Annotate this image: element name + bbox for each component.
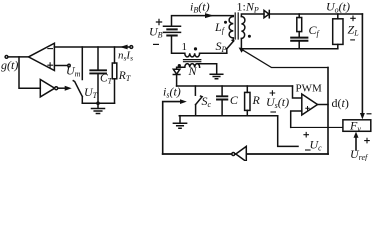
text minus comparator <box>47 48 53 50</box>
svg-text:Uo(t): Uo(t) <box>326 0 350 15</box>
capacitor Cf plates <box>291 38 307 41</box>
ground G2 <box>210 74 223 79</box>
wire Fv output to PWM <box>291 126 343 128</box>
text minus ZL <box>350 39 355 41</box>
svg-text:Us(t): Us(t) <box>266 95 289 110</box>
text minus Us <box>270 111 276 113</box>
arrow iB on top wire <box>205 13 214 18</box>
wire secondary left to diode D2 <box>177 67 185 69</box>
svg-text:d(t): d(t) <box>332 96 349 110</box>
text plus comparator <box>47 62 53 68</box>
text plus battery <box>156 19 162 25</box>
dot sense primary <box>194 47 197 50</box>
sense transformer secondary winding (N) <box>185 64 200 68</box>
capacitor CT plates <box>90 70 106 73</box>
wire is arrow from bottom loop <box>163 102 181 154</box>
wire Fv error into PWM lower input <box>291 111 302 127</box>
capacitor Cf esr box <box>297 18 302 32</box>
svg-text:iB(t): iB(t) <box>190 0 210 15</box>
svg-text:Lf: Lf <box>214 20 226 35</box>
op-amp U1 (left-pointing comparator) <box>29 43 55 70</box>
load ZL box <box>333 19 343 45</box>
capacitor C stub bottom <box>221 100 223 116</box>
wire bottom feedback <box>163 153 328 155</box>
transformer core <box>235 13 238 39</box>
switch SP bottom stub <box>226 49 228 53</box>
diode D1 <box>264 10 269 17</box>
svg-text:1: 1 <box>182 41 188 53</box>
sense transformer core <box>184 60 201 62</box>
resistor RT box <box>112 63 117 79</box>
capacitor C plates <box>217 96 227 99</box>
wire d(t) to SP arrow <box>242 49 329 67</box>
rail B <box>179 115 277 117</box>
capacitor Cf stub <box>298 14 300 18</box>
wire right edge Uo down <box>361 14 363 114</box>
wire junction g to inverter <box>19 57 40 88</box>
capacitor Cf wire <box>298 32 300 38</box>
op-amp PWM comparator <box>302 94 318 115</box>
wire diode to output rail <box>269 13 362 15</box>
svg-text:Uc: Uc <box>310 138 323 153</box>
wire inverter output arrow <box>58 87 65 89</box>
box Fv <box>343 120 371 132</box>
text plus Uref <box>364 138 370 144</box>
junction dot bottom node <box>96 101 100 105</box>
battery UB bottom wire <box>172 36 185 54</box>
resistor R stub top <box>246 86 248 92</box>
resistor RT stub bottom <box>114 79 116 103</box>
wire minus input stub to top rail <box>54 46 131 48</box>
switch Sc bottom stub <box>195 105 197 116</box>
transformer primary Lf winding <box>229 17 233 39</box>
wire bottom node <box>82 102 114 104</box>
switch UT top stub <box>81 47 83 80</box>
text plus pwm <box>305 106 309 110</box>
resistor R box <box>245 92 250 110</box>
diode D2 <box>173 69 180 74</box>
svg-text:UT: UT <box>84 85 98 100</box>
svg-text:N: N <box>188 64 198 78</box>
wire secondary bottom rail <box>241 39 337 49</box>
wire D2 to rail A <box>176 75 178 87</box>
text minus battery <box>153 43 159 45</box>
switch SP blade <box>227 40 234 48</box>
wire secondary top to diode <box>241 14 264 17</box>
buffer U3 on bottom wire (left pointing) <box>236 146 247 161</box>
text minus Fv input <box>367 113 372 115</box>
wire PWM output d(t) <box>318 104 329 106</box>
rail A is(t) <box>177 85 293 87</box>
capacitor C stub <box>221 86 223 96</box>
svg-text:R: R <box>252 93 261 107</box>
svg-text:Um: Um <box>66 64 81 79</box>
load ZL stub top <box>337 14 339 19</box>
battery UB plates <box>164 26 181 32</box>
svg-text:is(t): is(t) <box>163 85 181 100</box>
switch SP stub from primary <box>232 38 234 41</box>
arrow into Fv top <box>360 113 365 119</box>
svg-text:C: C <box>230 93 239 107</box>
ground G3 <box>179 116 181 123</box>
svg-text:Cf: Cf <box>309 23 321 38</box>
resistor RT stub top <box>114 47 116 63</box>
wire g(t) to comparator apex <box>8 56 29 58</box>
ground G1 <box>97 103 99 108</box>
svg-text:PWM: PWM <box>296 83 323 95</box>
switch UT blade <box>73 81 82 97</box>
switch Sc blade <box>196 96 203 105</box>
dot sense secondary <box>178 64 181 67</box>
svg-text:Uref: Uref <box>350 147 369 161</box>
capacitor Cf stub bottom <box>298 41 300 49</box>
dot Lf primary <box>224 21 227 24</box>
switch Sc top stub <box>194 86 196 95</box>
arrow Uref into Fv bottom <box>355 138 357 150</box>
switch UT bottom wire <box>81 97 83 104</box>
text minus Uc <box>305 149 311 151</box>
node g(t) terminal <box>5 56 8 59</box>
svg-text:RT: RT <box>118 70 131 83</box>
svg-text:SP: SP <box>216 39 227 54</box>
transformer secondary winding <box>241 17 245 39</box>
inverter U2 <box>40 80 54 97</box>
wire plus input to Um <box>54 65 67 67</box>
wire X d(t) distribution <box>327 68 329 155</box>
node nsis terminal <box>130 46 133 49</box>
dot secondary <box>248 35 251 38</box>
arrow nsis pointing left <box>120 45 128 50</box>
text plus Us <box>270 90 276 96</box>
text plus ZL <box>350 16 356 22</box>
wire rail A into PWM upper input <box>293 86 302 98</box>
svg-text:Fv: Fv <box>349 119 361 134</box>
svg-text:1:NP: 1:NP <box>237 0 259 15</box>
svg-text:UB: UB <box>149 25 163 40</box>
wire secondary right to ground <box>197 64 217 74</box>
svg-text:g(t): g(t) <box>1 58 18 72</box>
text plus Uc <box>303 132 309 138</box>
wire primary to SP <box>200 52 227 54</box>
svg-text:Sc: Sc <box>202 94 212 109</box>
svg-text:CT: CT <box>100 73 113 86</box>
resistor R stub bottom <box>246 110 248 115</box>
rail B extension wire <box>278 116 298 147</box>
battery UB top wire <box>172 16 234 27</box>
node Um terminal <box>68 64 70 66</box>
svg-text:nsIs: nsIs <box>118 50 133 63</box>
capacitor CT stub bottom <box>97 74 99 104</box>
capacitor CT stub top <box>97 47 99 70</box>
svg-text:ZL: ZL <box>348 23 360 38</box>
load ZL stub bottom <box>337 44 339 48</box>
sense transformer primary winding (1) <box>185 53 200 57</box>
